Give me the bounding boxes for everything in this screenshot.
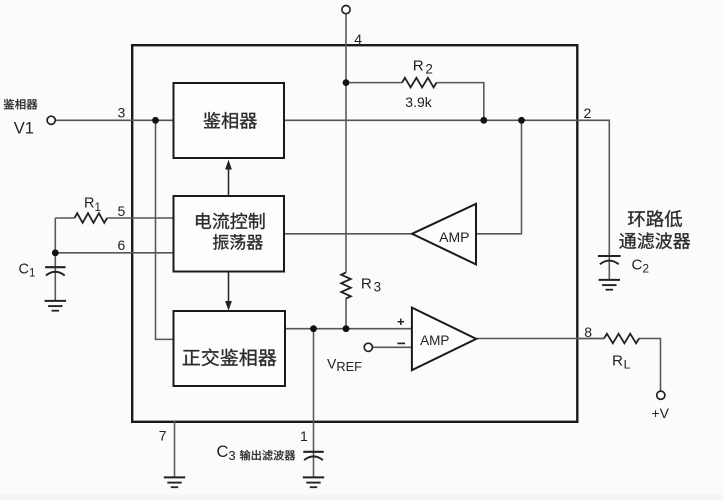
ground below C2: [599, 279, 620, 281]
svg-text:6: 6: [118, 237, 126, 253]
arrow oscillator to phase detector: [228, 169, 230, 197]
arrow oscillator to quadrature detector: [228, 272, 230, 302]
resistor R2 body: [346, 82, 402, 84]
wire pin 2 to loop filter C2: [577, 120, 609, 280]
svg-text:7: 7: [159, 427, 167, 443]
capacitor C2 (loop low-pass filter): [598, 255, 621, 257]
svg-text:AMP: AMP: [439, 229, 469, 245]
wire R3 lower lead: [345, 299, 347, 329]
svg-text:1: 1: [300, 428, 308, 444]
oscillator label line1 电流控制: [196, 213, 264, 230]
oscillator label line2 振荡器: [213, 234, 263, 250]
annotation output filter 输出滤波器: [240, 450, 295, 460]
wire phase detector output to pin 2: [284, 119, 577, 121]
wire pin 5 net into oscillator: [107, 217, 174, 219]
annotation loop low-pass filter line2 通滤波器: [619, 232, 690, 249]
svg-text:5: 5: [118, 203, 126, 219]
annotation loop low-pass filter line1 环路低: [628, 210, 682, 227]
resistor R1 body: [55, 217, 74, 219]
wire pin 6 net into oscillator: [55, 252, 173, 254]
AMP2 + input mark: [398, 319, 404, 325]
IC boundary U1: [132, 45, 577, 422]
junction quadrature output / R3: [343, 325, 350, 332]
op-amp AMP1 (loop amplifier, points left): [412, 204, 476, 265]
wire C1 node down to ground: [54, 253, 56, 301]
junction R1 / C1 / pin6 net: [52, 249, 59, 256]
svg-text:+V: +V: [652, 405, 670, 421]
supply terminal at pin 4: [342, 6, 350, 14]
svg-text:VREF: VREF: [327, 355, 362, 374]
resistor R3 body: [341, 273, 351, 299]
input terminal V1: [47, 116, 55, 124]
annotation 鉴相器 near V1: [4, 99, 38, 110]
AMP2 - input mark: [397, 342, 405, 344]
svg-text:3.9k: 3.9k: [405, 94, 432, 110]
svg-text:8: 8: [584, 324, 592, 340]
svg-text:3: 3: [118, 104, 126, 120]
wire R1 left corner down to C1 node: [54, 218, 56, 253]
phase detector block label 鉴相器: [203, 112, 256, 129]
wire AMP1 output to oscillator block: [284, 233, 412, 235]
op-amp AMP2 (output amplifier, points right): [412, 308, 476, 371]
phase detector block: [174, 83, 285, 158]
current-controlled oscillator block: [174, 196, 285, 272]
capacitor C1: [45, 266, 65, 268]
ground below C3: [303, 476, 324, 478]
wire R2 right lead drop to pin 2 net: [437, 83, 484, 121]
junction R2 to pin2 net: [480, 117, 487, 124]
svg-text:4: 4: [354, 31, 362, 47]
wire pin 7 to ground: [174, 421, 176, 477]
wire pin 3 junction down to quadrature detector: [156, 120, 174, 339]
svg-text:2: 2: [584, 105, 592, 121]
resistor RL body: [577, 338, 604, 340]
ground pin 7: [164, 476, 185, 478]
wire pin 1 net down to C3 and ground: [313, 329, 315, 477]
wire VREF terminal to AMP2 - input: [372, 346, 412, 348]
junction pin2 net / AMP1 input branch: [518, 117, 525, 124]
junction pin4 node / R2: [343, 79, 350, 86]
junction pin3 net / quadrature branch: [152, 117, 159, 124]
ground below C1: [45, 300, 66, 302]
VREF terminal: [364, 343, 372, 351]
wire V1 input to phase detector (pin 3 net): [55, 119, 174, 121]
wire R3 upper lead from pin 4 node: [345, 83, 347, 273]
wire AMP2 output to pin 8: [476, 338, 604, 340]
wire pin 2 net to AMP1 input: [476, 120, 522, 234]
quadrature phase detector block: [174, 311, 286, 386]
svg-text:AMP: AMP: [420, 333, 449, 348]
svg-text:V1: V1: [14, 120, 34, 138]
wire RL to +V terminal: [639, 339, 661, 392]
wire top supply terminal to pin 4 node: [345, 13, 347, 82]
+V terminal: [657, 391, 665, 399]
wire quadrature detector output to AMP2 + input: [285, 328, 412, 330]
quadrature detector label 正交鉴相器: [183, 348, 276, 366]
junction quadrature output / C3 branch: [310, 325, 317, 332]
capacitor C3 (output filter): [303, 451, 323, 453]
